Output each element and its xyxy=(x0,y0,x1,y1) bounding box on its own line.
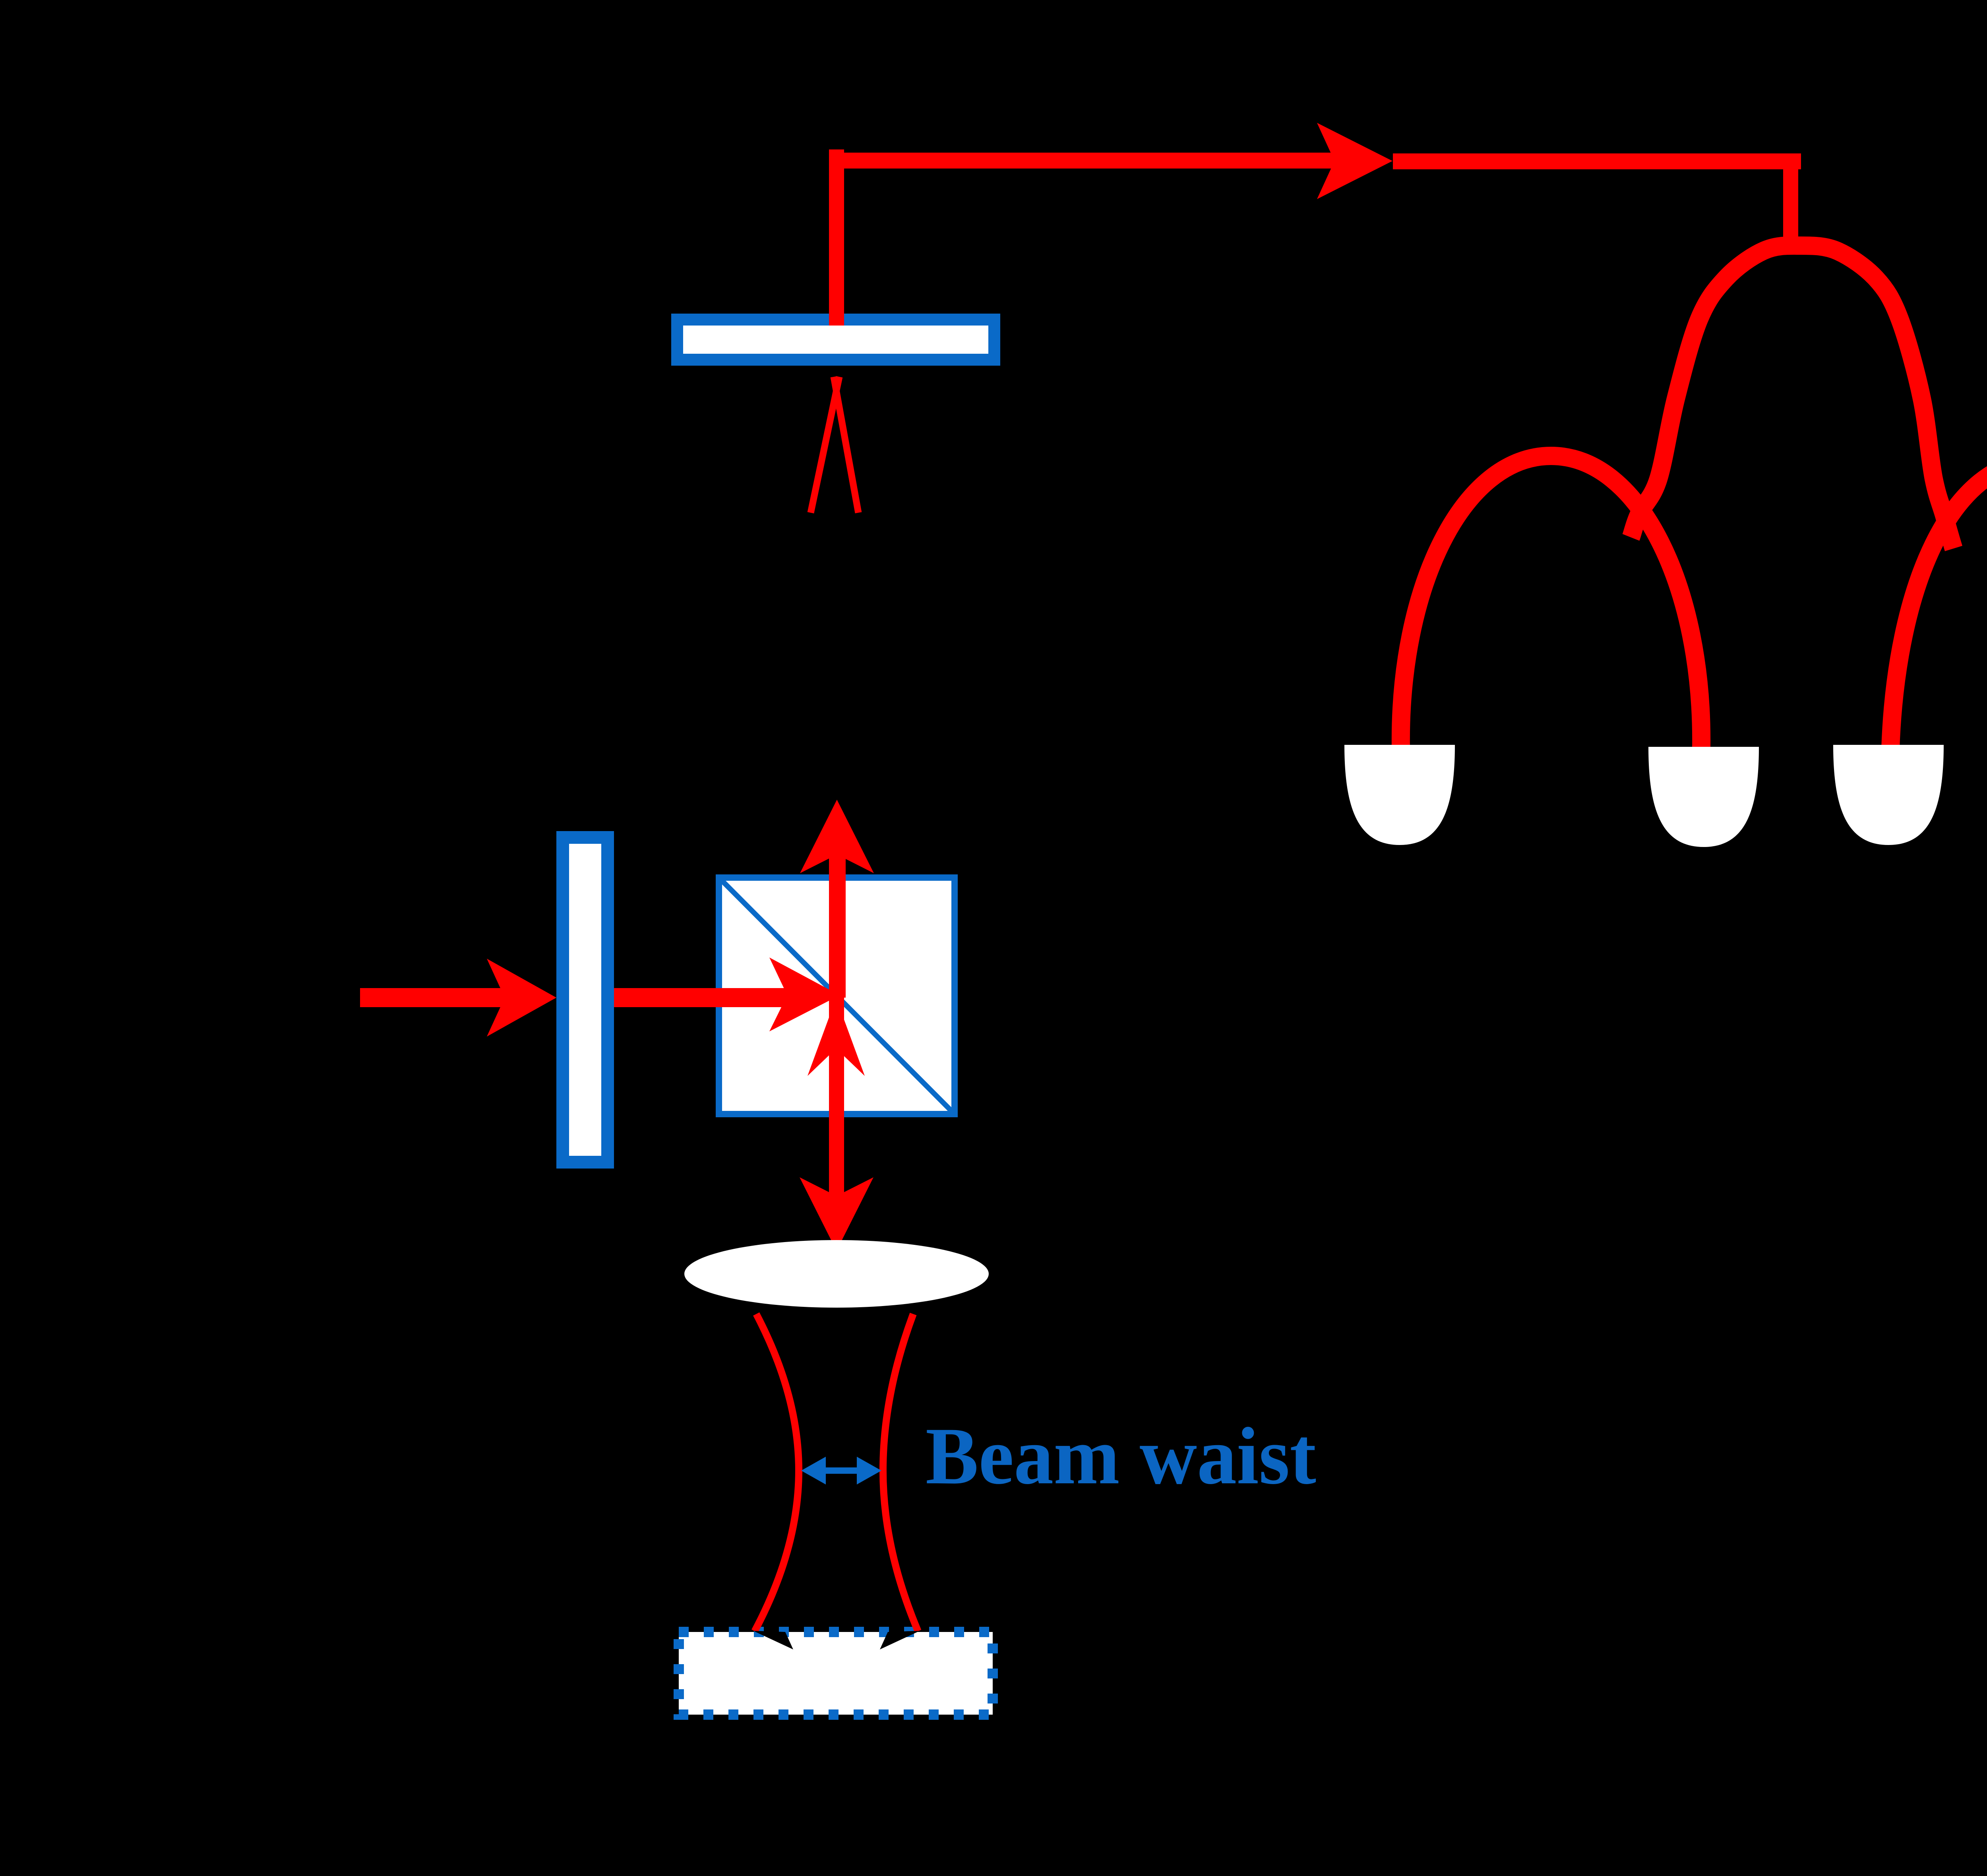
beam shaft waveplate to cube xyxy=(614,988,789,1007)
arrowhead on top beam (stealth, pointing right) xyxy=(1317,123,1392,199)
wire: beam stem from top plate up to horizontal line xyxy=(829,149,844,326)
wire: vertical drop into fiber arches xyxy=(1783,153,1798,251)
detector bowl D1 xyxy=(1344,745,1455,845)
up-pointing arrowhead inside cube (stealth) xyxy=(808,998,865,1076)
top plate (blue bordered mirror) xyxy=(671,314,1000,366)
black arrowhead right (beam into sample) xyxy=(880,1631,920,1649)
left arch (fiber loop) xyxy=(1401,456,1701,749)
detector bowl D3 xyxy=(1833,745,1944,845)
arrowhead into waveplate (stealth right) xyxy=(487,959,556,1037)
detector bowl D2 xyxy=(1648,747,1759,847)
cube diagonal xyxy=(722,881,951,1111)
middle tall arch (fiber loop) xyxy=(1631,246,1954,548)
beamsplitter cube xyxy=(716,874,958,1117)
vertical down beam shaft xyxy=(829,995,844,1197)
incoming beam shaft (left) xyxy=(360,988,505,1007)
arrowhead at cube center (stealth right) xyxy=(769,957,840,1031)
diverging beam cone below top plate xyxy=(811,377,839,513)
down arrowhead above lens (stealth down) xyxy=(800,1177,873,1251)
wire: top horizontal beam segment A xyxy=(829,153,1335,169)
svg-text:Beam waist: Beam waist xyxy=(926,1411,1316,1501)
beam waist double arrow (blue) xyxy=(801,1457,881,1485)
up arrowhead above cube (stealth up) xyxy=(800,800,874,873)
right arch (fiber loop) xyxy=(1890,460,1987,749)
sample (dashed rectangle) xyxy=(679,1632,993,1715)
waveplate (thin blue plate) xyxy=(556,831,614,1169)
focusing lens (white ellipse) xyxy=(684,1240,989,1308)
hourglass beam right edge xyxy=(883,1314,918,1631)
wire: top horizontal beam segment B xyxy=(1393,153,1801,169)
vertical up beam shaft xyxy=(829,853,846,998)
hourglass beam left edge xyxy=(755,1314,799,1631)
black arrowhead left (beam into sample) xyxy=(753,1631,793,1649)
